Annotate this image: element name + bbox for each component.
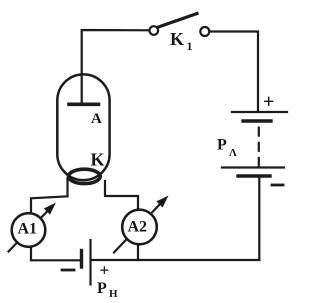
battery PA dashed link [258, 126, 260, 167]
wire filament right to A2 [105, 181, 138, 210]
svg-text:1: 1 [187, 39, 193, 53]
wire bottom bus left [31, 259, 80, 261]
anode plate [69, 103, 99, 107]
battery PH short negative plate [80, 251, 83, 268]
label K1 [170, 29, 193, 53]
svg-text:+: + [263, 91, 274, 113]
battery PA cell 1 positive long plate [232, 111, 287, 113]
svg-text:H: H [109, 288, 118, 300]
wire bottom bus right [91, 259, 259, 261]
svg-text:A: A [91, 111, 102, 127]
svg-text:A1: A1 [18, 221, 38, 238]
battery PA cell 2 short plate [238, 174, 270, 177]
switch K1 [150, 14, 210, 37]
ammeter A1 [9, 204, 55, 251]
wire filament left to A1 [31, 178, 68, 213]
battery PH long positive plate [89, 240, 91, 285]
label PH [97, 280, 118, 300]
battery PA cell 1 short plate [243, 119, 271, 122]
polarity + of PH [100, 261, 110, 280]
svg-text:K: K [91, 150, 105, 170]
battery PA cell 2 long plate [222, 166, 284, 168]
vacuum tube envelope [57, 74, 109, 180]
ammeter A2 [114, 197, 167, 252]
label K (cathode) [91, 150, 105, 170]
wire anode top lead [82, 30, 150, 104]
svg-text:P: P [217, 137, 227, 154]
svg-text:K: K [170, 29, 184, 49]
svg-text:Λ: Λ [229, 147, 237, 159]
cathode filament [69, 169, 101, 183]
svg-text:P: P [97, 280, 107, 297]
polarity - of PH [62, 269, 74, 272]
svg-text:+: + [100, 261, 110, 280]
wire A2 to bottom bus [137, 245, 139, 261]
label A (anode) [91, 111, 102, 127]
label PA [217, 137, 237, 160]
wire PA to bottom bus [258, 176, 260, 260]
svg-text:A2: A2 [128, 219, 148, 236]
wire switch to battery PA [210, 32, 259, 112]
wire A1 to bottom bus [30, 247, 32, 260]
polarity - of PA [272, 184, 283, 187]
polarity + of PA [263, 91, 274, 113]
